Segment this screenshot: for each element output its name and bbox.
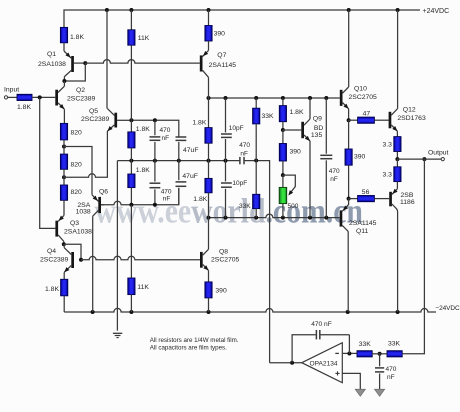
capacitor C1 470nF (center upper): [150, 120, 161, 160]
svg-text:nF: nF: [162, 135, 170, 142]
wire upper driver rail (y=98): [209, 97, 340, 99]
wire Q9 collector to rail: [309, 98, 311, 119]
svg-text:47: 47: [363, 111, 371, 118]
ground chassis arrow (U1 plus): [355, 389, 365, 396]
svg-text:470: 470: [161, 188, 172, 195]
part label 2SA1038 (Q1): [38, 61, 66, 68]
transistor Q7 2SA1145 (PNP): [200, 50, 209, 98]
node base bus dots: [129, 118, 157, 122]
wire R21 to Q13 base: [374, 198, 389, 200]
wire input to R1: [8, 96, 17, 98]
svg-text:390: 390: [214, 30, 226, 37]
svg-text:33K: 33K: [359, 341, 372, 348]
resistor R16 390 (bias): [279, 130, 286, 175]
svg-text:820: 820: [71, 130, 83, 137]
wire minus node up to cap: [348, 335, 350, 354]
svg-text:500: 500: [288, 203, 299, 210]
wire 820c to Q3 emitter: [63, 200, 65, 215]
svg-text:470: 470: [329, 168, 340, 175]
wire R17 to Q12 base: [374, 119, 388, 121]
resistor R7 1.8K (center lower): [128, 161, 135, 205]
node Q3 collector dot: [62, 242, 66, 246]
resistor R6 1.8K (center upper): [128, 120, 135, 160]
part label 2SC2389 (Q4): [40, 257, 69, 264]
designator Q5: [89, 108, 98, 115]
terminal output circle: [441, 158, 444, 161]
svg-text:Q9: Q9: [313, 116, 322, 123]
svg-text:47uF: 47uF: [182, 173, 198, 180]
value label 470 nF (C9): [386, 366, 397, 381]
svg-text:Q4: Q4: [47, 248, 56, 255]
resistor R10 390 (Q7 emitter): [205, 10, 212, 50]
svg-text:1186: 1186: [400, 199, 415, 206]
part label 2SC2389 (Q5): [81, 116, 110, 123]
svg-text:3.3: 3.3: [383, 142, 393, 149]
svg-text:2SA1038: 2SA1038: [64, 229, 92, 236]
svg-text:1.8K: 1.8K: [17, 104, 31, 111]
node Q9 base dot: [281, 128, 285, 132]
wire between 33Ks: [372, 353, 387, 355]
value label 1.8K (center lower): [136, 167, 150, 174]
svg-text:1038: 1038: [76, 209, 91, 216]
resistor R2 1.8K (top-left): [60, 27, 67, 42]
value label 390 (R23): [215, 288, 227, 295]
node Q1 collector junction dot: [62, 79, 66, 83]
capacitor C9 470nF (servo shunt): [375, 354, 384, 390]
port Output label: [428, 150, 449, 157]
svg-text:All capacitors are film types.: All capacitors are film types.: [150, 344, 227, 351]
wire 33K to output sense: [402, 159, 424, 354]
value label 10pF (C5): [229, 125, 244, 132]
part label 2SC2389 (Q2): [67, 95, 96, 102]
svg-text:1.8K: 1.8K: [136, 167, 150, 174]
resistor R24 33K (servo left): [357, 351, 372, 357]
wire R2 to Q1 emitter: [63, 43, 65, 51]
node Q10 emitter dot: [347, 118, 351, 122]
wire Q12 emitter to R18: [396, 131, 398, 136]
svg-text:+24VDC: +24VDC: [423, 8, 450, 15]
node pot top dot: [281, 173, 285, 177]
wire base bus y=63 with hops to Q7: [85, 60, 200, 63]
resistor R14 33K (lower): [253, 161, 260, 218]
wire rail to R1 (1.8K): [0, 0, 1, 1]
wire Q6 base bus y=204.8 with hop over ground line: [101, 188, 179, 205]
svg-text:nF: nF: [387, 374, 395, 381]
wire Q9 base: [283, 129, 301, 131]
svg-text:390: 390: [290, 149, 302, 156]
svg-text:11K: 11K: [137, 284, 149, 291]
node Q6 base bus dots: [129, 203, 157, 207]
svg-text:2SA1038: 2SA1038: [38, 61, 66, 68]
net label +24VDC: [423, 8, 450, 15]
wire 820b-820c: [63, 169, 65, 185]
transistor Q11 2SA1145 (PNP): [340, 199, 349, 312]
wire output: [397, 158, 441, 160]
designator Q1: [47, 51, 56, 58]
value label 390 (Q7): [214, 30, 226, 37]
node 56 junction dot: [347, 197, 351, 201]
transistor Q6 2SA1038 (PNP, mirrored): [92, 195, 104, 312]
svg-text:Output: Output: [428, 150, 449, 157]
wire feedback line to Q3 base: [40, 97, 56, 228]
wire to R17: [349, 119, 358, 121]
designator Q9: [313, 116, 322, 123]
value label 47 (R17): [363, 111, 371, 118]
decorative watermark (drawn beneath circuit): [95, 192, 363, 231]
svg-text:820: 820: [71, 161, 83, 168]
svg-text:135: 135: [311, 132, 323, 139]
svg-text:Q7: Q7: [217, 52, 226, 59]
resistor R12 1.8K (right lower): [205, 161, 212, 218]
svg-text:33K: 33K: [262, 113, 275, 120]
svg-text:10pF: 10pF: [229, 125, 244, 132]
svg-text:1.8K: 1.8K: [136, 126, 150, 133]
value label 390 (R20): [354, 154, 366, 161]
wire Q9 emitter to lower rail: [309, 141, 311, 218]
designator Q8: [219, 248, 228, 255]
svg-text:1.8K: 1.8K: [193, 196, 207, 203]
wire servo output: [270, 362, 302, 364]
resistor R25 33K (servo right): [387, 351, 402, 357]
value label 1.8K (R22): [45, 286, 59, 293]
resistor R3 820 (upper): [60, 123, 67, 139]
value label 390 (bias): [290, 149, 302, 156]
svg-text:Q11: Q11: [356, 228, 369, 235]
resistor R20 390 (right): [345, 149, 352, 199]
resistor R5 820 (lower): [60, 185, 67, 200]
wire 820a-820b: [63, 140, 65, 154]
wire node-B to Q5 emitter (hop over Q6 line): [64, 131, 107, 177]
value label 470 nF (mid cap): [239, 142, 250, 157]
capacitor C3 470nF (center lower): [150, 161, 161, 205]
value label 470 nF (C8): [311, 321, 332, 328]
svg-text:www.eeworld.com.cn: www.eeworld.com.cn: [95, 192, 363, 231]
value label 10pF (C6): [232, 180, 247, 187]
part label 2SD1763 (Q12): [397, 115, 426, 122]
value label 1.8K (right lower): [193, 196, 207, 203]
transistor Q3 2SA1038 (PNP): [55, 215, 64, 244]
svg-text:All resistors are 1/4W metal f: All resistors are 1/4W metal film.: [150, 337, 239, 344]
op-amp U1 OPA2134 (output pointing left): [302, 343, 343, 383]
value label 33K (upper): [262, 113, 275, 120]
node Q4 base dot: [79, 258, 83, 262]
node upper driver rail dots: [207, 96, 329, 100]
designator Q10: [354, 86, 367, 93]
designator Q12: [403, 106, 416, 113]
value label 1.8K (center upper): [136, 126, 150, 133]
node 820 junction dot B: [62, 175, 66, 179]
capacitor C5 10pF (upper): [221, 98, 232, 161]
transistor Q5 2SC2389 (NPN, mirrored): [106, 109, 131, 133]
svg-text:Q12: Q12: [403, 106, 416, 113]
node output junction dots: [395, 157, 426, 161]
value label 1.8K (right upper): [192, 119, 206, 126]
svg-text:1.8K: 1.8K: [45, 286, 59, 293]
value label 47uF (C2): [183, 147, 199, 154]
part label 2SC2705 (Q10): [349, 94, 378, 101]
svg-text:820: 820: [71, 189, 83, 196]
ground chassis arrow (C9): [375, 389, 385, 396]
port Input label: [4, 87, 19, 94]
svg-text:390: 390: [215, 288, 227, 295]
svg-text:Input: Input: [4, 87, 19, 94]
resistor R9 11K (bottom): [128, 205, 135, 312]
svg-text:Q8: Q8: [219, 248, 228, 255]
part label 2SA1038 (Q3): [64, 229, 92, 236]
part label 2SC2705 (Q8): [211, 257, 240, 264]
transistor Q2 2SC2389 (NPN): [55, 81, 66, 123]
resistor R8 11K (top): [128, 10, 135, 120]
svg-text:10pF: 10pF: [232, 180, 247, 187]
wire to R21: [349, 198, 358, 200]
svg-text:2SD1763: 2SD1763: [397, 115, 426, 122]
wire fb cap branch: [292, 335, 316, 363]
part label 2SB (Q13): [401, 192, 414, 199]
value label 47uF (C4): [182, 173, 198, 180]
resistor R21 56 (horizontal): [358, 196, 375, 202]
note text line 1: [150, 337, 239, 344]
wire Q4 base bus y=259.8 with hops: [81, 256, 200, 260]
transistor Q10 2SC2705 (NPN): [340, 87, 350, 110]
part label 1186 (Q13): [400, 199, 415, 206]
capacitor C7 470nF (between driver rails): [320, 98, 332, 218]
wire Q1 base-collector tie: [64, 63, 85, 81]
capacitor C6 10pF (lower): [221, 161, 232, 218]
value label 56 (R21): [362, 189, 370, 196]
capacitor C4 47uF (center lower): [176, 161, 187, 205]
svg-text:2SC2389: 2SC2389: [40, 257, 69, 264]
svg-text:Q5: Q5: [89, 108, 98, 115]
svg-text:Q1: Q1: [47, 51, 56, 58]
svg-text:Q10: Q10: [354, 86, 367, 93]
value label 3.3 (R18): [383, 142, 393, 149]
part label 1038 (Q6): [76, 209, 91, 216]
wire minus input: [342, 352, 357, 354]
svg-text:nF: nF: [163, 195, 171, 202]
transistor Q4 2SC2389 (NPN, mirrored): [63, 244, 74, 279]
node servo fb dot: [290, 361, 294, 365]
svg-text:3.3: 3.3: [383, 172, 393, 179]
resistor R_in 1.8K (horizontal): [17, 94, 32, 100]
svg-text:2SA1145: 2SA1145: [349, 220, 377, 227]
svg-text:56: 56: [362, 189, 370, 196]
svg-text:1.8K: 1.8K: [290, 109, 304, 116]
transistor Q9 BD135 (NPN): [301, 119, 311, 142]
designator Q4: [47, 248, 56, 255]
wire -24V rail with hops: [64, 308, 436, 312]
svg-text:470: 470: [160, 127, 171, 134]
node -24V rail junction dots: [91, 310, 400, 314]
value label 1.8K (top-left): [70, 34, 84, 41]
value label 1.8K (input): [17, 104, 31, 111]
svg-text:11K: 11K: [138, 35, 150, 42]
resistor R17 47 (horizontal): [358, 117, 375, 123]
value label 500 (VR1): [288, 203, 299, 210]
designator Q7: [217, 52, 226, 59]
svg-text:1.8K: 1.8K: [70, 34, 84, 41]
svg-text:470: 470: [386, 366, 397, 373]
capacitor C2 47uF (center upper): [176, 137, 187, 161]
value label 33K (R25): [388, 341, 401, 348]
value label 3.3 (R19): [383, 172, 393, 179]
svg-text:2SC2705: 2SC2705: [349, 94, 378, 101]
net label -24VDC: [435, 305, 460, 312]
part label BD (Q9): [314, 125, 324, 132]
value label 820 (lower): [71, 189, 83, 196]
wire Q3C to Q4 base: [64, 244, 81, 260]
svg-text:47uF: 47uF: [183, 147, 199, 154]
designator Q2: [76, 87, 85, 94]
svg-text:2SC2705: 2SC2705: [211, 257, 240, 264]
svg-text:2SC2389: 2SC2389: [81, 116, 110, 123]
node mid rail dots: [129, 159, 258, 163]
wire ground stem (x=117.4): [116, 161, 118, 331]
ground earth symbol: [113, 333, 122, 337]
svg-text:OPA2134: OPA2134: [310, 360, 338, 367]
capacitor C_mid 470nF (horizontal, on mid rail): [240, 157, 244, 164]
node servo divider dot: [378, 352, 382, 356]
wire R18 to output node: [396, 152, 398, 160]
svg-text:33K: 33K: [388, 341, 401, 348]
pin plus sign (U1): [335, 371, 339, 375]
value label 11K (bottom): [137, 284, 149, 291]
resistor R11 1.8K (right upper): [205, 98, 212, 161]
node Q1 base junction dot: [83, 61, 87, 65]
value label 470 nF (C1): [160, 127, 171, 142]
wire plus input to ground: [342, 373, 360, 389]
value label 11K (top): [138, 35, 150, 42]
resistor R19 3.3 (lower): [394, 159, 401, 189]
wire Q10 emitter down: [348, 109, 350, 120]
node lower driver rail dots: [207, 216, 329, 220]
svg-text:Q6: Q6: [99, 188, 108, 195]
resistor R18 3.3 (upper): [394, 137, 401, 152]
designator Q3: [70, 220, 79, 227]
capacitor C8 470nF (servo feedback): [316, 330, 319, 339]
part label 2SA1145 (Q11): [349, 220, 377, 227]
value label 470 nF (C3): [161, 188, 172, 202]
wire fb cap to minus node: [321, 334, 350, 336]
wire node-A to Q6 emitter: [64, 147, 92, 195]
node +24V rail junction dots: [105, 8, 400, 12]
note text line 2: [150, 344, 227, 351]
value label 820 (middle): [71, 161, 83, 168]
svg-text:2SC2389: 2SC2389: [67, 95, 96, 102]
part label OPA2134 (U1): [310, 360, 338, 367]
wire R_in to Q2 base: [32, 96, 55, 98]
transistor Q1 2SA1038 (PNP, mirrored): [64, 51, 85, 81]
wire Q5 base bus y=120.3: [131, 120, 178, 137]
node 820 junction dot A: [62, 145, 66, 149]
resistor R22 1.8K (bottom-left): [61, 279, 68, 312]
designator Q6: [99, 188, 108, 195]
value label 33K (lower): [239, 203, 251, 210]
svg-text:33K: 33K: [239, 203, 251, 210]
value label 470 nF (C7): [329, 168, 340, 183]
wire +24V rail: [64, 10, 420, 27]
svg-text:nF: nF: [240, 151, 248, 158]
terminal input circle: [4, 96, 7, 99]
svg-text:Q2: Q2: [76, 87, 85, 94]
value label 820 (upper): [71, 130, 83, 137]
transistor Q8 2SC2705 (NPN): [200, 218, 210, 272]
svg-text:470 nF: 470 nF: [311, 321, 332, 328]
wire Q12 collector to +24: [397, 10, 399, 109]
designator Q11: [356, 228, 369, 235]
resistor R23 390 (Q8 emitter): [205, 270, 212, 312]
svg-text:1.8K: 1.8K: [192, 119, 206, 126]
node input junction dot: [38, 95, 42, 99]
value label 1.8K (bias): [290, 109, 304, 116]
part label 135 (Q9): [311, 132, 323, 139]
node minus input dot: [347, 352, 351, 356]
wiper arm of VR1: [283, 175, 295, 197]
svg-text:2SA1145: 2SA1145: [209, 62, 237, 69]
svg-text:−24VDC: −24VDC: [435, 305, 460, 312]
resistor R4 820 (middle): [60, 154, 67, 169]
resistor R15 1.8K (bias): [279, 98, 286, 130]
value label 33K (R24): [359, 341, 372, 348]
transistor Q12 2SD1763 (NPN): [389, 109, 399, 133]
part label 2SA1145 (Q7): [209, 62, 237, 69]
resistor R13 33K (upper): [253, 98, 260, 161]
part label 2SA (Q6): [77, 202, 90, 209]
potentiometer VR1 500 (green trimmer): [279, 175, 287, 218]
svg-text:Q3: Q3: [70, 220, 79, 227]
wire lower driver rail (y=217.6) with hop over servo line: [209, 214, 340, 218]
wire 390 to Q11 area: [348, 120, 350, 149]
svg-text:nF: nF: [330, 176, 338, 183]
wire Q5 collector to +24 rail: [106, 10, 108, 109]
pin minus sign (U1): [335, 352, 339, 354]
svg-text:390: 390: [354, 154, 366, 161]
wire Q10 collector to +24: [348, 10, 350, 87]
svg-text:470: 470: [239, 142, 250, 149]
transistor Q13 2SB1186 (PNP): [389, 189, 397, 312]
wire mid ground rail (y=160.6): [117, 161, 269, 363]
